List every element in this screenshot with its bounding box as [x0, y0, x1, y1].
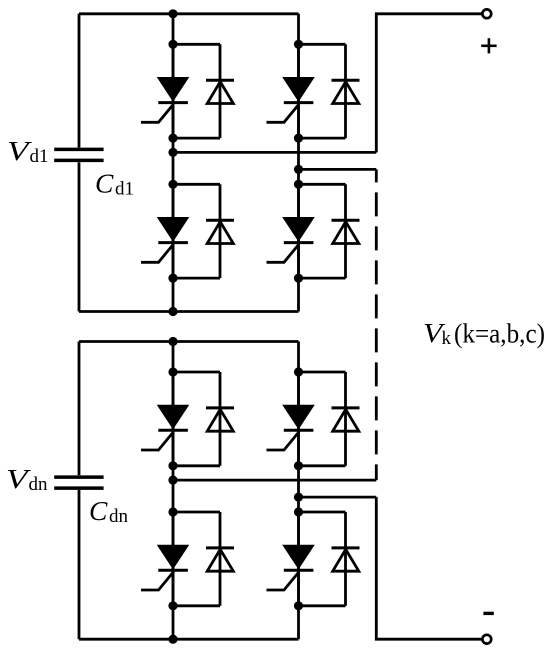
svg-text:dn: dn [29, 474, 49, 495]
svg-text:d1: d1 [115, 179, 134, 200]
svg-text:dn: dn [109, 506, 129, 527]
svg-text:k: k [442, 328, 452, 349]
svg-text:C: C [95, 168, 114, 199]
svg-text:(k=a,b,c): (k=a,b,c) [454, 319, 545, 349]
svg-text:C: C [89, 495, 108, 526]
svg-text:d1: d1 [30, 146, 49, 167]
